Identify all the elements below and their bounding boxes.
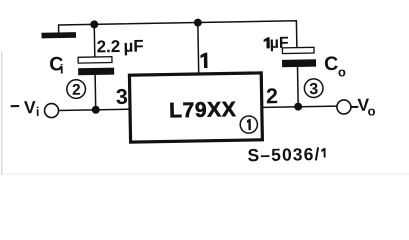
svg-text:3: 3 <box>309 81 318 98</box>
svg-text:C: C <box>324 53 338 75</box>
svg-text:o: o <box>338 64 346 79</box>
svg-text:2.2: 2.2 <box>96 37 120 56</box>
svg-text:i: i <box>60 61 64 76</box>
svg-text:V: V <box>24 97 36 117</box>
svg-text:o: o <box>367 104 375 119</box>
svg-text:µF: µF <box>270 35 290 52</box>
svg-text:2: 2 <box>72 82 81 99</box>
svg-text:2: 2 <box>266 84 278 108</box>
svg-text:i: i <box>36 105 40 119</box>
svg-text:L79XX: L79XX <box>169 98 237 122</box>
svg-text:µF: µF <box>123 37 144 56</box>
svg-text:S–5036/: S–5036/ <box>247 144 320 165</box>
svg-text:3: 3 <box>116 85 128 109</box>
